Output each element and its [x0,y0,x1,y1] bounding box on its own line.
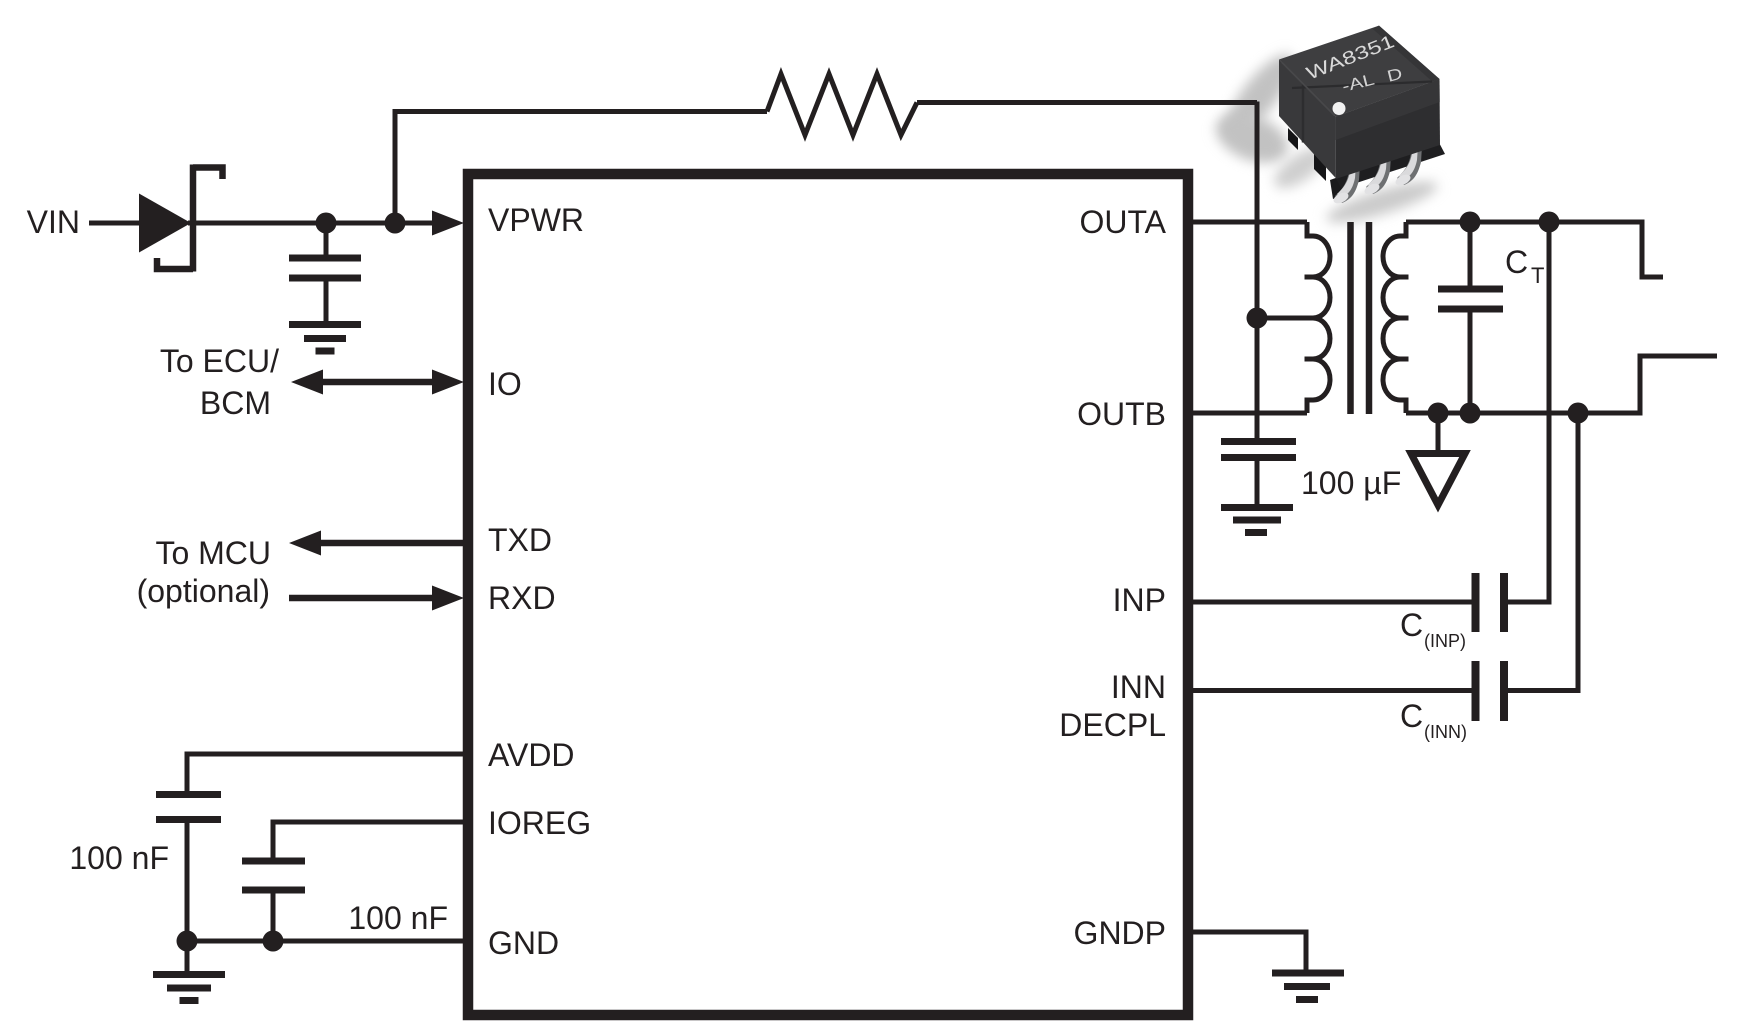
arrowhead into VPWR [432,211,464,236]
capacitor C1 bottom lead [324,282,329,322]
photo pin 1 [1335,162,1360,203]
wire OUTB [1193,411,1307,416]
ground G4 lead [1436,413,1441,451]
photo top seam [1292,82,1432,89]
photo body right face [1336,79,1440,179]
wire secondary bottom rail [1406,411,1640,416]
svg-text:(INP): (INP) [1424,631,1466,651]
wire center tap [1257,316,1313,321]
transformer T1 photo (WA8351 package) [1209,26,1445,231]
photo dark standoff tabs [1288,128,1298,150]
svg-text:To MCU: To MCU [155,535,271,571]
svg-text:C: C [1400,698,1423,734]
svg-text:T: T [1531,263,1544,288]
wire secondary top rail [1406,220,1642,225]
capacitor C(INP) plates [1476,573,1505,632]
wire riser from resistor tap [393,112,398,224]
wire IOREG [273,822,463,858]
photo pin1 dot [1333,102,1346,115]
junction node GND/C2 [177,931,198,952]
svg-text:VPWR: VPWR [488,202,584,238]
wire diode to VPWR [188,221,436,226]
diode D1 (TVS) anode triangle [139,194,191,253]
ground G3 [1221,508,1293,533]
svg-text:IOREG: IOREG [488,805,591,841]
wire INP to top rail [1508,222,1549,605]
junction node on VIN rail (cap tap) [316,213,337,234]
diode D1 cathode bar (zener hooks) [157,165,223,272]
junction node CT top [1460,212,1481,233]
wire drop to transformer center tap [1255,102,1260,442]
capacitor C4 bottom lead [1255,461,1260,504]
photo body top face [1279,26,1440,117]
capacitor C(INN) plates [1476,661,1505,721]
wire IO bidirectional arrow [318,379,437,386]
junction node center tap [1247,308,1268,329]
svg-text:GNDP: GNDP [1074,915,1166,951]
ground G2 lead [185,941,190,971]
wire AVDD [187,754,463,791]
wire TXD arrow (out) [316,540,463,547]
svg-text:BCM: BCM [200,385,271,421]
svg-text:100 µF: 100 µF [1301,465,1401,501]
capacitor C1 (VPWR bulk) top lead [324,223,329,255]
IC U1 body [468,174,1188,1015]
ground G1 [289,325,361,352]
photo left face seam [1302,85,1305,143]
svg-text:OUTA: OUTA [1079,204,1166,240]
svg-text:INN: INN [1111,669,1166,705]
capacitor CT plates [1438,289,1503,309]
svg-text:(optional): (optional) [137,573,270,609]
svg-text:DECPL: DECPL [1059,707,1166,743]
svg-text:IO: IO [488,366,522,402]
wire bottom-right stub connector [1640,356,1717,416]
wire GND [187,939,463,944]
ground G5 [1272,973,1344,1000]
svg-text:AVDD: AVDD [488,737,575,773]
capacitor C1 plates [289,258,361,278]
svg-text:GND: GND [488,925,559,961]
wire top-right stub connector [1642,220,1663,278]
capacitor C3 bottom lead [271,894,276,942]
capacitor CT bottom lead [1468,313,1473,414]
capacitor C4 100uF plates [1221,442,1296,458]
capacitor C3 100nF plates [242,861,305,890]
svg-text:INP: INP [1113,582,1166,618]
junction node CT bottom [1460,403,1481,424]
capacitor CT top lead [1468,222,1473,286]
svg-text:100 nF: 100 nF [348,900,448,936]
svg-text:100 nF: 100 nF [69,840,169,876]
capacitor C2 bottom lead [185,823,190,941]
svg-text:To ECU/: To ECU/ [160,343,279,379]
ground G4 (open triangle) [1411,454,1465,506]
photo body left face [1279,60,1336,179]
ground G2 [153,975,225,1001]
svg-text:C: C [1400,607,1423,643]
wire VIN input [89,221,141,226]
wire INP [1193,600,1472,605]
svg-text:RXD: RXD [488,580,556,616]
junction node C(INN) rail [1568,403,1589,424]
svg-text:VIN: VIN [27,204,80,240]
resistor R1 [767,74,917,135]
wire RXD arrow (in) [289,595,437,602]
wire INN [1193,688,1472,693]
wire GNDP [1193,932,1306,970]
svg-text:TXD: TXD [488,522,552,558]
svg-text:(INN): (INN) [1424,722,1467,742]
photo pin 3 [1397,144,1422,185]
capacitor C2 100nF plates [156,795,221,820]
junction node C(INP) rail top [1539,212,1560,233]
photo shadow left [1216,45,1304,145]
photo top bevel [1373,26,1440,82]
transformer T1 secondary winding [1383,222,1409,413]
junction node GND/C3 [263,931,284,952]
wire OUTA [1193,220,1307,225]
wire top rail left [393,109,768,114]
wire INN to bottom rail [1508,413,1578,693]
photo underside strip [1336,145,1445,189]
junction node on VIN rail (resistor tap) [385,213,406,234]
wire top rail right [917,100,1257,105]
svg-text:OUTB: OUTB [1077,396,1166,432]
transformer T1 primary winding [1305,222,1331,413]
junction node ground tap [1428,403,1449,424]
transformer T1 core [1351,222,1370,414]
photo shadow under pins [1323,174,1441,231]
svg-text:C: C [1505,244,1528,280]
photo pin 2 [1366,153,1391,194]
